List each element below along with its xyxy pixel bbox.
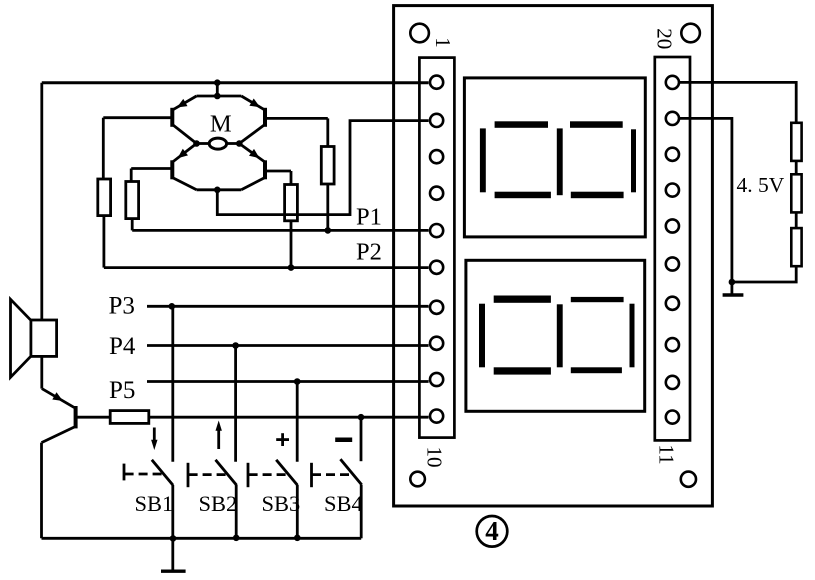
wire base line to pin10 <box>149 416 429 419</box>
switch SB4 <box>312 417 362 538</box>
resistor R2 <box>126 169 139 231</box>
node dot P5-SB3 <box>294 378 301 385</box>
node dot R4-P2 <box>288 264 295 271</box>
wire base V3 <box>131 167 171 170</box>
wire battery bottom <box>732 266 796 282</box>
mounting hole bottom-left <box>410 472 425 487</box>
svg-text:10: 10 <box>423 447 447 468</box>
svg-text:SB1: SB1 <box>135 491 174 516</box>
svg-text:1: 1 <box>431 37 455 48</box>
wire base V1 <box>103 116 171 119</box>
motor M <box>197 111 240 150</box>
svg-text:SB2: SB2 <box>199 491 238 516</box>
node dot R3-P1 <box>325 227 332 234</box>
node dot bridge bottom <box>214 187 221 194</box>
battery GB cell 2 <box>791 174 801 212</box>
left pins 1-10 <box>430 76 443 423</box>
mounting hole top-left <box>410 24 429 43</box>
node dot bottom-SB2 <box>233 535 240 542</box>
node dot motor right <box>236 140 243 147</box>
speaker B <box>11 299 57 377</box>
switch SB3 <box>248 382 298 538</box>
resistor R4 <box>285 171 298 268</box>
svg-text:P1: P1 <box>356 204 382 231</box>
mounting hole top-right <box>681 24 700 43</box>
transistor V3 <box>172 144 196 190</box>
node dot top rail <box>214 79 221 86</box>
svg-text:4. 5V: 4. 5V <box>737 173 785 197</box>
top rail wire <box>42 81 429 84</box>
wire rail to bridge node <box>216 83 219 96</box>
svg-text:20: 20 <box>653 28 677 49</box>
node dot bridge top <box>214 93 221 100</box>
wire bridge top node <box>197 95 242 98</box>
wire pin19 down <box>679 118 732 282</box>
arrow SB1 <box>151 428 157 451</box>
label plus SB3 <box>276 433 289 446</box>
wire P2 <box>104 266 429 269</box>
node dot P4-SB2 <box>232 342 239 349</box>
wire P3 <box>147 305 429 308</box>
svg-text:P5: P5 <box>109 377 135 404</box>
svg-text:4: 4 <box>485 516 499 546</box>
node dot base-SB4 <box>358 414 365 421</box>
svg-text:SB4: SB4 <box>324 491 363 516</box>
wire base V4 <box>267 170 292 173</box>
node dot battery return <box>729 279 736 286</box>
wire speaker to V5 <box>40 356 43 388</box>
wire bottom common <box>42 537 362 540</box>
node dot P3-SB1 <box>169 303 176 310</box>
svg-text:P3: P3 <box>109 293 135 320</box>
transistor V2 <box>239 96 265 144</box>
battery GB cell 1 <box>791 123 801 161</box>
resistor R5 <box>110 411 149 424</box>
right pin strip <box>655 57 690 440</box>
right pins 20-11 <box>666 76 679 424</box>
transistor V1 <box>172 96 196 144</box>
left vertical wire <box>40 83 43 321</box>
wire P1 <box>132 229 428 232</box>
switch SB2 <box>188 346 237 538</box>
wire bridge bottom node <box>197 188 242 191</box>
figure label 4 <box>477 516 508 547</box>
wire V5 base <box>77 416 110 419</box>
battery GB cell 3 <box>791 228 801 266</box>
svg-text:SB3: SB3 <box>262 491 301 516</box>
resistor R3 <box>321 118 334 230</box>
module box U1 <box>394 6 713 506</box>
wire base V2 <box>267 117 328 120</box>
left pin strip <box>419 58 454 438</box>
wire bottom node to pin2 <box>217 121 428 215</box>
node dot bottom-SB1 <box>170 535 177 542</box>
svg-text:11: 11 <box>655 444 679 464</box>
wire cell2-cell3 <box>795 212 798 228</box>
mounting hole bottom-right <box>681 472 696 487</box>
node dot motor left <box>193 140 200 147</box>
label minus SB4 <box>335 437 352 442</box>
display DS2 <box>466 260 645 411</box>
wire V5 collector down <box>40 443 43 539</box>
svg-text:M: M <box>210 111 232 138</box>
wire P4 <box>147 344 429 347</box>
switch SB1 <box>124 306 173 570</box>
resistor R1 <box>98 118 111 268</box>
arrow SB2 <box>216 421 222 450</box>
svg-text:P2: P2 <box>356 239 382 266</box>
display DS1 <box>464 78 645 237</box>
transistor V5 <box>42 389 76 443</box>
ground left <box>161 570 186 573</box>
transistor V4 <box>239 144 265 190</box>
ground right <box>723 282 744 295</box>
node dot bottom-SB3 <box>294 535 301 542</box>
wire pin20 to battery <box>679 82 796 122</box>
wire cell1-cell2 <box>795 161 798 174</box>
wire P5 <box>147 380 429 383</box>
svg-text:P4: P4 <box>109 333 136 360</box>
